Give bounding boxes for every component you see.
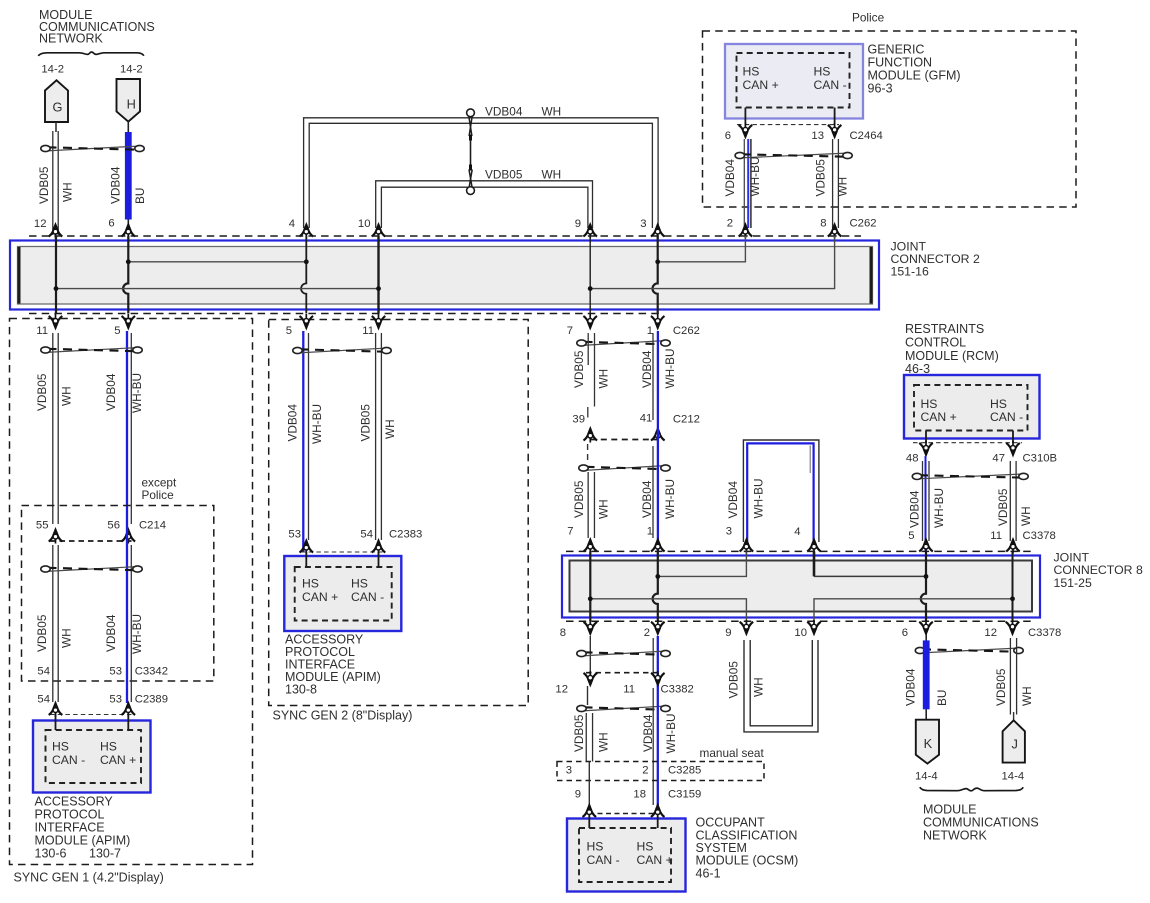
C3382 interface dashed line — [586, 672, 662, 674]
GFM pin stub left — [744, 108, 746, 126]
svg-text:54: 54 — [37, 666, 50, 678]
vertical twisted pair symbol between loops — [467, 109, 475, 195]
svg-text:CAN -: CAN - — [587, 853, 620, 867]
wire VDB05 WH from GFM — [832, 139, 834, 228]
svg-text:11: 11 — [990, 530, 1002, 542]
svg-text:BU: BU — [133, 188, 147, 204]
svg-text:VDB04: VDB04 — [485, 105, 523, 119]
svg-text:WH-BU: WH-BU — [748, 157, 762, 197]
svg-text:INTERFACE: INTERFACE — [35, 821, 105, 835]
svg-text:8: 8 — [820, 218, 826, 230]
JC2 junction pin4/VDB04 — [304, 259, 309, 264]
svg-text:GENERIC: GENERIC — [868, 43, 925, 57]
twisted pair symbol (below C212) — [585, 466, 665, 471]
arrow out of GFM pin 13 — [828, 123, 842, 138]
APIM (4.2) module box — [33, 721, 151, 793]
svg-text:5: 5 — [908, 530, 914, 542]
svg-text:VDB04: VDB04 — [286, 404, 300, 442]
APIM (8) pin label HS CAN - — [351, 577, 384, 605]
arrow into JC8 pin 4 — [807, 538, 821, 554]
wire loop VDB04 WH (JC2 pin 4 to pin 3) — [304, 118, 658, 228]
APIM (4.2) pin label HS CAN + — [100, 740, 136, 768]
wire VDB05 WH (SG2) — [375, 333, 377, 540]
JC2 junction pin3/VDB04 — [655, 259, 660, 264]
svg-text:CAN +: CAN + — [637, 853, 673, 867]
svg-text:WH: WH — [61, 182, 75, 202]
arrow out of JC8 pin 9 — [740, 620, 754, 636]
svg-text:WH: WH — [752, 677, 766, 697]
arrow out of JC2 pin 11b — [372, 314, 386, 330]
arrow into JC2 pin 6 — [122, 223, 136, 239]
arrow into JC8 pin 3 — [740, 538, 754, 554]
OCSM pin label HS CAN - — [587, 840, 620, 868]
JC8 internal wire pin5-pin6 — [921, 551, 926, 621]
svg-text:12: 12 — [34, 218, 47, 230]
svg-text:12: 12 — [555, 684, 568, 696]
svg-text:WH-BU: WH-BU — [130, 614, 144, 654]
svg-text:VDB04: VDB04 — [104, 373, 118, 411]
OCSM module box — [567, 819, 686, 892]
svg-text:12: 12 — [984, 627, 997, 639]
svg-text:WH-BU: WH-BU — [664, 714, 678, 754]
svg-text:C3159: C3159 — [668, 789, 701, 801]
JC2 junction pin10/VDB05 — [376, 286, 381, 291]
JC2 internal wire pin4-pin5b — [301, 236, 306, 314]
arrow into JC2 pin 2 — [739, 223, 753, 239]
twisted pair symbol (below JC8 pins 8/2) — [583, 651, 665, 656]
GFM pin label HS CAN + — [743, 65, 779, 93]
svg-text:CAN +: CAN + — [743, 78, 779, 92]
connector J symbol — [1003, 720, 1025, 762]
SYNC GEN 1 dashed box — [10, 319, 253, 865]
C3285 dashed box — [557, 762, 764, 781]
OCSM pin label HS CAN + — [637, 840, 673, 868]
svg-text:HS: HS — [743, 65, 760, 79]
svg-text:WH-BU: WH-BU — [752, 479, 766, 519]
svg-text:10: 10 — [358, 218, 371, 230]
svg-text:14-4: 14-4 — [1002, 771, 1025, 783]
svg-text:VDB05: VDB05 — [727, 661, 741, 699]
svg-text:WH: WH — [836, 177, 850, 197]
svg-text:13: 13 — [811, 130, 824, 142]
JC8 internal wire pin9 with VDB05 bus left — [590, 599, 746, 622]
twisted pair symbol (below C262) — [583, 341, 665, 346]
svg-text:manual seat: manual seat — [700, 746, 765, 760]
APIM (4.2) pin label HS CAN - — [52, 740, 85, 768]
svg-text:7: 7 — [567, 325, 573, 337]
JC2 junction pin6/VDB04 — [126, 259, 131, 264]
OCSM interface dashed line — [589, 813, 658, 815]
arrow into APIM2 pin 54 — [372, 539, 386, 555]
svg-text:J: J — [1011, 737, 1017, 752]
wire VDB04 WH-BU (JC8 to C3382) — [653, 636, 658, 688]
wire VDB04 WH-BU (C3382 to OCSM) — [653, 688, 658, 814]
svg-text:3: 3 — [566, 765, 572, 777]
arrow out of RCM pin 47 — [1006, 441, 1020, 457]
OCSM pin stub left — [588, 817, 590, 829]
svg-text:39: 39 — [572, 414, 585, 426]
SYNC GEN 2 dashed box — [269, 320, 529, 706]
arrow into JC2 pin 12 — [49, 223, 63, 239]
svg-text:130-6: 130-6 — [35, 847, 67, 861]
svg-text:VDB05: VDB05 — [814, 159, 828, 197]
JC2 junction pin9/VDB05 — [588, 286, 593, 291]
svg-text:HS: HS — [921, 397, 938, 411]
arrow into JC2 pin 3 — [651, 223, 665, 239]
module communications network heading (top left) — [39, 8, 155, 46]
svg-text:3: 3 — [726, 526, 732, 538]
C214 interface dashed line — [50, 540, 134, 542]
RCM interface dashed line — [913, 442, 1022, 444]
svg-text:9: 9 — [575, 789, 581, 801]
arrow out of JC8 pin 8 — [584, 620, 598, 636]
JC2 internal VDB05 bus left — [56, 288, 379, 290]
JC8 internal wire pin7-pin8 — [589, 551, 591, 621]
svg-text:CAN -: CAN - — [52, 753, 85, 767]
wire VDB05 WH from G to joint connector 2 pin 12 — [53, 122, 58, 235]
svg-text:9: 9 — [575, 218, 581, 230]
wire VDB05 WH (RCM) — [1009, 461, 1011, 541]
svg-text:HS: HS — [990, 397, 1007, 411]
APIM (4.2) module name — [35, 795, 131, 861]
svg-text:HS: HS — [302, 577, 319, 591]
JC8 internal wire pin10 with VDB05 bus right — [814, 599, 1013, 622]
svg-text:7: 7 — [567, 526, 573, 538]
svg-text:HS: HS — [100, 740, 117, 754]
svg-text:14-2: 14-2 — [41, 64, 64, 76]
svg-text:WH: WH — [597, 499, 611, 519]
svg-text:1: 1 — [647, 325, 653, 337]
svg-text:CONTROL: CONTROL — [905, 335, 966, 349]
svg-text:C3285: C3285 — [668, 765, 701, 777]
OCSM pin stub right — [657, 817, 659, 829]
wire VDB04 WH-BU (SG1 upper) — [127, 331, 131, 525]
svg-text:47: 47 — [992, 453, 1005, 465]
svg-text:C2389: C2389 — [135, 694, 168, 706]
wire VDB05 WH (C3285 to C3159) — [588, 762, 590, 807]
svg-text:CAN -: CAN - — [990, 410, 1023, 424]
svg-text:48: 48 — [906, 453, 919, 465]
svg-text:2: 2 — [642, 765, 648, 777]
svg-text:VDB05: VDB05 — [572, 714, 586, 752]
svg-text:11: 11 — [36, 325, 48, 337]
svg-text:H: H — [127, 97, 136, 112]
arrow into C212 pin 41 — [651, 427, 665, 443]
JC2 internal wire pin6-pin5 — [123, 236, 128, 314]
JC2 internal VDB04 bus left — [128, 261, 306, 263]
svg-text:WH: WH — [1019, 506, 1033, 526]
arrow into C214 pin 55 — [49, 528, 63, 544]
arrow out of JC8 pin 6 — [919, 620, 933, 636]
svg-text:WH-BU: WH-BU — [932, 488, 946, 528]
svg-text:53: 53 — [109, 666, 122, 678]
arrow out of JC8 pin 2 — [651, 620, 665, 636]
C212 interface dashed line — [590, 439, 658, 441]
connector K symbol — [916, 720, 939, 764]
svg-text:VDB04: VDB04 — [726, 481, 740, 519]
arrow out of JC2 pin 1 — [651, 314, 665, 330]
RCM module box — [904, 375, 1040, 439]
JC8 dashed border top — [566, 550, 1034, 552]
JC2 name label — [891, 240, 980, 279]
svg-text:WH: WH — [542, 105, 562, 119]
svg-text:CAN +: CAN + — [921, 410, 957, 424]
svg-text:VDB05: VDB05 — [994, 668, 1008, 706]
JC2 junction pin12/VDB05 — [54, 286, 59, 291]
svg-text:1: 1 — [647, 526, 653, 538]
arrow into JC8 pin 11 — [1006, 538, 1020, 554]
svg-text:SYNC GEN 2 (8"Display): SYNC GEN 2 (8"Display) — [273, 709, 413, 723]
APIM (8) module box — [284, 556, 401, 631]
svg-text:130-8: 130-8 — [285, 683, 317, 697]
svg-text:9: 9 — [725, 627, 731, 639]
svg-text:FUNCTION: FUNCTION — [868, 56, 933, 70]
arrow into JC8 pin 7 — [584, 538, 598, 554]
JC8 name label — [1054, 550, 1143, 590]
svg-text:VDB04: VDB04 — [641, 714, 655, 752]
svg-text:WH: WH — [597, 732, 611, 752]
OCSM module name — [696, 816, 799, 881]
svg-text:VDB05: VDB05 — [37, 166, 51, 204]
svg-text:SYNC GEN 1 (4.2"Display): SYNC GEN 1 (4.2"Display) — [14, 871, 164, 885]
svg-text:C310B: C310B — [1023, 453, 1058, 465]
wire VDB04 WH-BU (RCM) — [923, 456, 930, 551]
wire loop VDB05 WH (JC2 pin 10 to pin 9) — [376, 181, 593, 228]
svg-text:53: 53 — [288, 529, 301, 541]
twisted pair symbol (below C3382) — [583, 706, 665, 711]
RCM pin stub left — [925, 431, 927, 444]
svg-text:JOINT: JOINT — [1054, 550, 1090, 564]
svg-text:55: 55 — [36, 520, 49, 532]
svg-text:C262: C262 — [850, 218, 877, 230]
twisted pair symbol (RCM) — [918, 474, 1023, 479]
svg-text:WH: WH — [597, 369, 611, 389]
svg-text:VDB04: VDB04 — [104, 614, 118, 652]
svg-text:4: 4 — [289, 218, 295, 230]
except Police dashed box — [22, 506, 214, 682]
svg-text:5: 5 — [114, 325, 120, 337]
connector H symbol — [117, 79, 141, 122]
GFM connector interface dashed line — [737, 124, 839, 126]
svg-text:10: 10 — [794, 627, 807, 639]
arrow into APIM pin 54 — [49, 702, 63, 718]
RCM pin stub right — [1012, 431, 1014, 444]
svg-text:11: 11 — [362, 325, 374, 337]
svg-text:PROTOCOL: PROTOCOL — [35, 808, 105, 822]
GFM pin stub right — [834, 108, 836, 126]
svg-text:VDB04: VDB04 — [723, 159, 737, 197]
GFM module name — [868, 43, 961, 96]
arrow out of JC8 pin 12 — [1006, 620, 1020, 636]
svg-text:HS: HS — [587, 840, 604, 854]
brace under heading — [38, 52, 144, 56]
svg-text:Police: Police — [142, 488, 175, 502]
svg-text:COMMUNICATIONS: COMMUNICATIONS — [923, 816, 1039, 830]
svg-text:C3382: C3382 — [661, 684, 694, 696]
svg-text:NETWORK: NETWORK — [923, 829, 988, 843]
svg-text:46-1: 46-1 — [696, 866, 721, 880]
wire VDB04 WH-BU (SG2) — [303, 331, 308, 552]
wire VDB05 WH to J — [1010, 638, 1016, 721]
arrow out of JC2 pin 5 — [122, 314, 136, 330]
JC2 internal wire pin8 with VDB05 bus right — [590, 236, 834, 289]
APIM (8) inner dashed box — [295, 567, 392, 621]
wire VDB04 WH-BU (C212-JC8) — [653, 427, 658, 551]
arrow into JC2 pin 4 — [300, 223, 314, 239]
svg-text:41: 41 — [640, 413, 653, 425]
svg-text:Police: Police — [852, 11, 885, 25]
svg-text:RESTRAINTS: RESTRAINTS — [905, 322, 984, 336]
arrow out of C3382 pin 12 — [584, 671, 598, 687]
arrow out of JC2 pin 11 — [49, 314, 63, 330]
svg-text:54: 54 — [360, 529, 373, 541]
svg-text:C2464: C2464 — [850, 130, 883, 142]
module communications network heading (bottom right) — [923, 803, 1039, 843]
wire VDB04 BU from H to joint connector 2 pin 6 — [125, 122, 132, 236]
JC8 junction pin7/VDB05 — [588, 596, 593, 601]
arrow into APIM pin 53 — [122, 702, 136, 718]
arrow into APIM2 pin 53 — [300, 539, 314, 555]
RCM inner dashed box — [914, 385, 1028, 431]
svg-text:6: 6 — [108, 218, 114, 230]
GFM pin label HS CAN - — [814, 65, 847, 93]
svg-text:6: 6 — [725, 130, 731, 142]
JC8 internal wire pin4 with VDB04 bus right — [813, 551, 816, 576]
wire VDB05 WH (JC8 to C3382) — [589, 636, 591, 672]
svg-text:ACCESSORY: ACCESSORY — [35, 795, 114, 809]
RCM pin label HS CAN - — [990, 397, 1023, 424]
APIM (4.2) pin stub right — [127, 715, 129, 731]
svg-text:C214: C214 — [139, 520, 166, 532]
brace above bottom heading — [920, 787, 1023, 791]
svg-text:K: K — [924, 736, 933, 751]
svg-text:WH-BU: WH-BU — [310, 404, 324, 444]
arrow out of JC8 pin 10 — [807, 620, 821, 636]
svg-text:CAN +: CAN + — [100, 753, 136, 767]
svg-text:WH-BU: WH-BU — [130, 373, 144, 413]
svg-text:54: 54 — [37, 694, 50, 706]
svg-text:WH: WH — [542, 168, 562, 182]
svg-text:VDB04: VDB04 — [109, 166, 123, 204]
svg-text:130-7: 130-7 — [89, 847, 121, 861]
arrow into JC8 pin 5 — [919, 538, 933, 554]
svg-text:MODULE (GFM): MODULE (GFM) — [868, 69, 961, 83]
svg-text:HS: HS — [637, 840, 654, 854]
GFM module box — [725, 44, 863, 119]
arrow out of JC2 pin 5b — [300, 314, 314, 330]
svg-text:8: 8 — [560, 627, 566, 639]
svg-text:96-3: 96-3 — [868, 82, 893, 96]
svg-text:VDB05: VDB05 — [572, 350, 586, 388]
svg-text:VDB05: VDB05 — [572, 480, 586, 518]
svg-text:HS: HS — [351, 577, 368, 591]
arrow into JC2 pin 8 — [828, 223, 842, 239]
svg-text:VDB05: VDB05 — [996, 488, 1010, 526]
wire VDB05 WH (C262-C212) — [588, 333, 595, 418]
wire VDB04 WH-BU (C262-C212) — [653, 331, 658, 427]
svg-text:G: G — [53, 100, 63, 115]
svg-text:5: 5 — [286, 325, 292, 337]
twisted pair symbol (GFM wires) — [741, 153, 847, 158]
svg-text:CAN -: CAN - — [814, 78, 847, 92]
APIM (8) pin stub right — [378, 552, 380, 567]
svg-text:VDB05: VDB05 — [35, 373, 49, 411]
connector G symbol — [45, 80, 68, 122]
svg-text:C3378: C3378 — [1028, 627, 1061, 639]
Police dashed box — [703, 31, 1077, 207]
wire VDB04 WH-BU from GFM — [744, 139, 751, 228]
JC2 internal wire pin10-pin11b — [377, 236, 379, 314]
twisted pair symbol (SG1 lower) — [47, 567, 137, 572]
joint connector 2 body — [10, 241, 879, 310]
svg-text:151-25: 151-25 — [1054, 576, 1092, 590]
joint connector 8 body — [562, 556, 1040, 618]
JC8 junction pin1/VDB04 — [655, 574, 660, 579]
svg-text:WH: WH — [1020, 686, 1034, 706]
arrow into OCSM pin 9 — [583, 804, 597, 820]
wire VDB05 WH (SG1 lower) — [52, 545, 54, 702]
wire loop VDB04 WH-BU (JC8 pin 3 to pin 4) — [743, 440, 819, 542]
GFM inner dashed box — [737, 53, 850, 108]
twisted pair symbol (SG1 upper) — [47, 348, 137, 353]
wire VDB04 BU to K — [923, 634, 930, 720]
svg-text:53: 53 — [109, 694, 122, 706]
svg-text:VDB05: VDB05 — [485, 168, 523, 182]
arrow into JC2 pin 9 — [583, 223, 597, 239]
dashed wire below C212 — [587, 444, 589, 464]
svg-text:WH: WH — [60, 628, 74, 648]
svg-text:CAN -: CAN - — [351, 590, 384, 604]
wire VDB05 WH (SG1 upper) — [52, 333, 54, 524]
svg-text:2: 2 — [644, 627, 650, 639]
twisted pair symbol (SG2) — [299, 348, 386, 353]
wire VDB04 WH-BU (SG1 lower) — [127, 525, 131, 703]
svg-text:WH: WH — [60, 386, 74, 406]
svg-text:6: 6 — [902, 627, 908, 639]
svg-text:VDB05: VDB05 — [35, 614, 49, 652]
svg-text:WH-BU: WH-BU — [663, 479, 677, 519]
arrow into JC2 pin 10 — [372, 223, 386, 239]
svg-text:2: 2 — [727, 218, 733, 230]
svg-text:C262: C262 — [673, 325, 700, 337]
svg-text:BU: BU — [935, 690, 949, 706]
JC2 internal wire pin9-pin7 — [589, 236, 591, 314]
APIM (8) module name — [285, 633, 381, 697]
JC2 dashed border top — [29, 235, 861, 237]
arrow into OCSM pin 18 — [651, 804, 665, 820]
twisted pair symbol (K/J wires) — [921, 648, 1018, 653]
arrow out of C3382 pin 11 — [651, 671, 665, 687]
JC2 internal wire pin3-pin1 — [653, 236, 658, 314]
svg-text:MODULE (RCM): MODULE (RCM) — [905, 349, 999, 363]
APIM (8) pin label HS CAN + — [302, 577, 338, 605]
svg-text:14-4: 14-4 — [915, 771, 938, 783]
JC2 internal wire pin2 with VDB04 bus right — [658, 236, 746, 262]
JC2 dashed border bottom — [29, 313, 663, 315]
JC8 dashed border bottom — [566, 620, 1034, 622]
except Police label — [142, 476, 177, 503]
svg-text:C2383: C2383 — [389, 529, 422, 541]
arrow out of GFM pin 6 — [739, 123, 753, 138]
JC8 junction pin5/VDB04 — [924, 574, 929, 579]
svg-text:VDB04: VDB04 — [640, 480, 654, 518]
wire VDB05 WH (C212-JC8) — [587, 472, 589, 538]
svg-text:VDB04: VDB04 — [640, 350, 654, 388]
svg-text:C212: C212 — [673, 414, 700, 426]
RCM pin label HS CAN + — [921, 397, 957, 424]
svg-text:C3378: C3378 — [1023, 530, 1056, 542]
svg-text:VDB04: VDB04 — [904, 668, 918, 706]
